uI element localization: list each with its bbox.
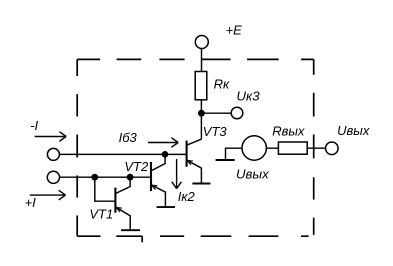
svg-text:+I: +I xyxy=(25,195,37,210)
svg-text:+E: +E xyxy=(226,23,243,38)
svg-text:Uвых: Uвых xyxy=(236,166,269,181)
svg-text:Iб3: Iб3 xyxy=(119,130,138,145)
svg-text:VT2: VT2 xyxy=(124,159,149,174)
svg-text:Uк3: Uк3 xyxy=(236,88,260,103)
svg-text:VT1: VT1 xyxy=(89,207,113,222)
svg-text:-I: -I xyxy=(30,118,38,133)
svg-text:Iк2: Iк2 xyxy=(178,189,196,204)
svg-text:Rк: Rк xyxy=(214,76,230,91)
svg-text:Rвых: Rвых xyxy=(272,124,305,139)
svg-text:VT3: VT3 xyxy=(203,124,228,139)
svg-text:Uвых: Uвых xyxy=(337,123,370,138)
